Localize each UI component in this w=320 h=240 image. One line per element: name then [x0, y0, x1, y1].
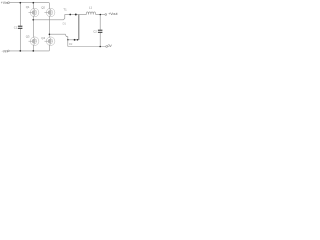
svg-text:+Vin: +Vin [1, 1, 8, 5]
svg-text:Q2: Q2 [41, 5, 45, 9]
svg-text:+Vout: +Vout [108, 12, 117, 16]
svg-text:D2: D2 [69, 42, 73, 46]
svg-text:Q3: Q3 [26, 34, 30, 38]
svg-text:C1: C1 [14, 26, 18, 30]
svg-text:C2: C2 [93, 30, 97, 34]
svg-text:0V: 0V [108, 44, 113, 48]
svg-text:D1: D1 [63, 22, 67, 26]
svg-text:Q4: Q4 [41, 36, 45, 40]
svg-text:L1: L1 [89, 6, 93, 10]
svg-text:T1: T1 [63, 8, 67, 12]
svg-text:-Vin: -Vin [2, 49, 8, 53]
svg-text:Q1: Q1 [26, 5, 30, 9]
